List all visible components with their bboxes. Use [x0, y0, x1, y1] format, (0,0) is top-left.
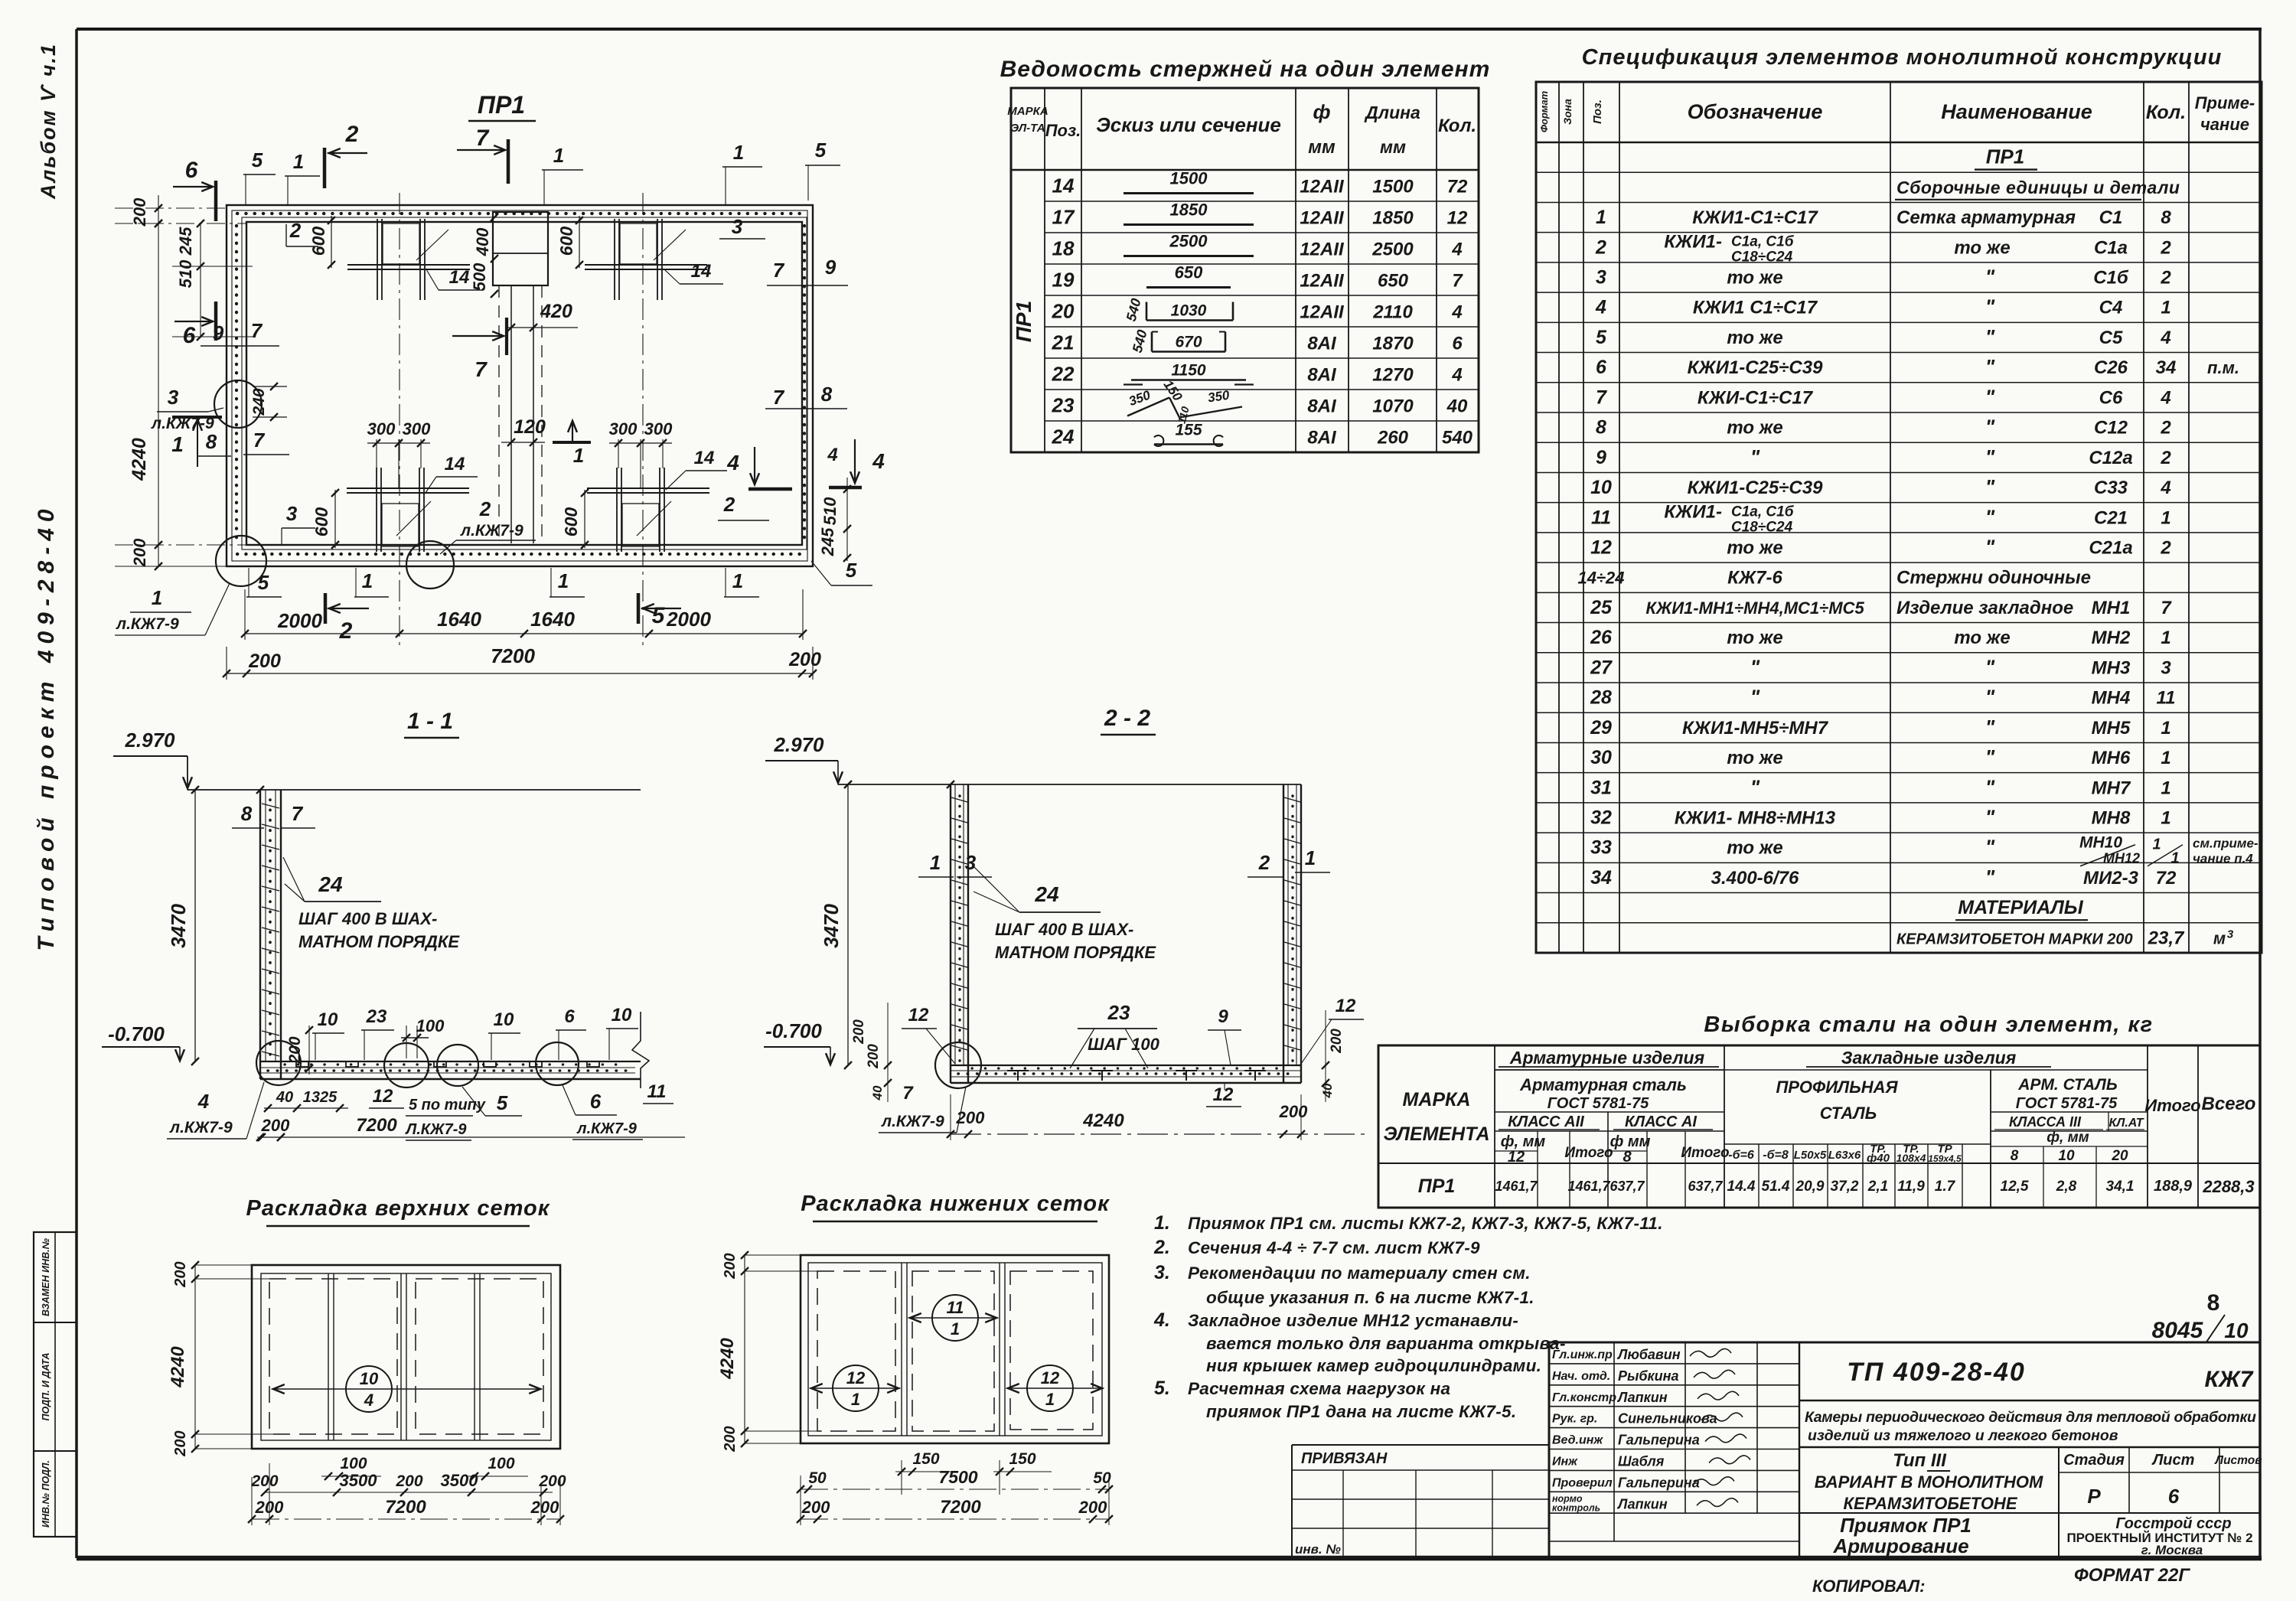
section mark 7 (top, into plan) [457, 149, 504, 151]
spec row 4 [1536, 232, 2262, 233]
svg-text:Поз.: Поз. [1045, 121, 1081, 140]
svg-text:29: 29 [1590, 717, 1612, 739]
svg-text:Гальперина: Гальперина [1618, 1433, 1700, 1448]
svg-text:8АI: 8АI [1307, 334, 1337, 354]
svg-text:общие указания п. 6 на листе: общие указания п. 6 на листе КЖ7-1. [1206, 1288, 1534, 1307]
svg-text:Стадия: Стадия [2063, 1452, 2125, 1469]
svg-text:2: 2 [345, 122, 359, 147]
svg-text:300: 300 [367, 419, 396, 439]
svg-text:2.970: 2.970 [773, 733, 824, 756]
svg-text:1: 1 [1305, 846, 1316, 869]
svg-text:20: 20 [1052, 300, 1075, 323]
svg-text:": " [1985, 686, 1995, 709]
svg-text:Инж: Инж [1552, 1456, 1578, 1469]
svg-text:2000: 2000 [277, 609, 322, 632]
svg-text:С1а, С1б: С1а, С1б [1731, 233, 1795, 249]
mesh circle 10/4 [346, 1366, 392, 1412]
svg-text:10: 10 [494, 1009, 514, 1030]
svg-text:650: 650 [1378, 271, 1409, 292]
spec row 13 [1536, 502, 2262, 504]
svg-text:1: 1 [851, 1390, 860, 1409]
svg-text:14: 14 [445, 454, 465, 474]
inventory stamp boxes [34, 1232, 77, 1537]
svg-text:ф, мм: ф, мм [1501, 1133, 1546, 1150]
svg-text:7: 7 [2161, 598, 2172, 618]
svg-text:7: 7 [475, 357, 488, 381]
svg-text:л.КЖ7-9: л.КЖ7-9 [460, 522, 523, 540]
svg-text:200: 200 [172, 1430, 189, 1456]
right wall [1283, 784, 1284, 1083]
svg-text:Раскладка нижених сеток: Раскладка нижених сеток [801, 1192, 1110, 1216]
spec row 5 [1536, 262, 2262, 263]
svg-text:7200: 7200 [356, 1115, 397, 1136]
svg-text:200: 200 [722, 1253, 739, 1279]
svg-text:2: 2 [2160, 448, 2171, 468]
signature row Проверил [1549, 1491, 1799, 1492]
svg-text:1: 1 [2161, 778, 2170, 798]
svg-text:7200: 7200 [940, 1497, 981, 1518]
svg-text:8: 8 [2161, 207, 2171, 228]
svg-text:24: 24 [1034, 882, 1059, 906]
svg-text:": " [1985, 655, 1995, 678]
svg-text:Л.КЖ7-9: Л.КЖ7-9 [404, 1121, 467, 1138]
svg-text:1: 1 [171, 432, 184, 456]
title row TP 409-28-40 [1799, 1400, 2260, 1401]
spec row 24 [1536, 832, 2262, 833]
svg-text:3: 3 [1596, 267, 1606, 289]
svg-text:то же: то же [1954, 628, 2010, 648]
spec row 12 [1536, 471, 2262, 473]
svg-text:2: 2 [289, 219, 302, 242]
svg-text:": " [1985, 716, 1995, 739]
svg-text:Итого: Итого [1564, 1145, 1613, 1161]
svg-text:КЖИ-С1÷С17: КЖИ-С1÷С17 [1698, 387, 1814, 408]
mesh circle 12/1 left [833, 1365, 879, 1411]
svg-text:Арматурная сталь: Арматурная сталь [1519, 1075, 1687, 1094]
svg-text:-б=8: -б=8 [1763, 1149, 1789, 1162]
svg-text:12АII: 12АII [1300, 177, 1345, 197]
svg-text:12: 12 [908, 1005, 929, 1025]
svg-text:то же: то же [1954, 237, 2010, 258]
svg-text:С1а, С1б: С1а, С1б [1731, 504, 1795, 520]
svg-text:4: 4 [364, 1391, 373, 1410]
svg-text:МН8: МН8 [2092, 808, 2131, 829]
svg-text:": " [1985, 866, 1995, 889]
svg-text:1: 1 [2161, 628, 2170, 648]
svg-text:МН3: МН3 [2092, 657, 2131, 678]
svg-text:2288,3: 2288,3 [2202, 1177, 2254, 1196]
svg-text:1.7: 1.7 [1935, 1179, 1956, 1195]
spec row 11 [1536, 442, 2262, 443]
svg-text:С26: С26 [2094, 357, 2128, 378]
svg-text:Эскиз или сечение: Эскиз или сечение [1096, 113, 1281, 136]
spec row 3 [1536, 201, 2262, 203]
svg-text:Ведомость стержней на один: Ведомость стержней на один элемент [1000, 57, 1491, 82]
svg-text:2: 2 [2160, 418, 2171, 439]
svg-text:г. Москва: г. Москва [2141, 1543, 2203, 1557]
svg-text:2: 2 [2160, 268, 2171, 289]
svg-text:": " [1985, 745, 1995, 768]
svg-text:ШАГ 400 В ШАХ-: ШАГ 400 В ШАХ- [995, 920, 1133, 939]
svg-text:10: 10 [2058, 1148, 2075, 1164]
svg-text:12,5: 12,5 [2001, 1179, 2029, 1195]
svg-text:12: 12 [1041, 1368, 1060, 1387]
svg-text:200: 200 [172, 1261, 189, 1287]
detail circles on floor [256, 1041, 301, 1085]
svg-text:200: 200 [261, 1116, 290, 1135]
svg-text:8: 8 [2207, 1290, 2220, 1316]
bottom dimension row 2 [227, 673, 813, 674]
svg-text:9: 9 [213, 321, 224, 344]
svg-text:-б=6: -б=6 [1728, 1149, 1754, 1162]
svg-text:19: 19 [1052, 269, 1075, 292]
signature row Гл.констр [1549, 1406, 1799, 1407]
svg-text:1461,7: 1461,7 [1567, 1179, 1610, 1194]
svg-text:1: 1 [573, 444, 584, 467]
svg-text:1850: 1850 [1170, 201, 1208, 220]
spec row 6 [1536, 292, 2262, 293]
left wall [950, 784, 951, 1083]
svg-text:С12а: С12а [2089, 448, 2132, 468]
svg-text:100: 100 [488, 1455, 514, 1472]
svg-text:1: 1 [362, 569, 373, 592]
svg-text:С12: С12 [2094, 418, 2128, 439]
svg-text:Арматурные изделия: Арматурные изделия [1509, 1048, 1705, 1068]
svg-text:Формат: Формат [1538, 90, 1550, 132]
svg-text:3470: 3470 [167, 904, 190, 948]
svg-text:200: 200 [1329, 1029, 1345, 1054]
svg-text:7: 7 [902, 1083, 914, 1104]
dim 3470 [847, 784, 849, 1065]
svg-text:7: 7 [292, 802, 304, 825]
svg-text:С4: С4 [2099, 298, 2123, 318]
svg-text:приямок ПР1 дана на листе КЖ: приямок ПР1 дана на листе КЖ7-5. [1206, 1402, 1516, 1421]
svg-text:Альбом Ѵ ч.1: Альбом Ѵ ч.1 [37, 43, 60, 200]
svg-text:-0.700: -0.700 [108, 1022, 165, 1045]
svg-text:Итого: Итого [2144, 1096, 2200, 1115]
svg-text:300: 300 [644, 419, 673, 439]
svg-text:": " [1750, 686, 1760, 709]
svg-text:2: 2 [1595, 236, 1606, 258]
svg-text:Рекомендации по материалу сте: Рекомендации по материалу стен см. [1188, 1264, 1531, 1283]
svg-text:ШАГ 400 В ШАХ-: ШАГ 400 В ШАХ- [298, 909, 437, 928]
section mark 7 mid [452, 335, 501, 337]
svg-text:": " [1985, 806, 1995, 829]
rebar cluster top-left [377, 219, 378, 300]
svg-text:КЕРАМЗИТОБЕТОН МАРКИ 200: КЕРАМЗИТОБЕТОН МАРКИ 200 [1896, 931, 2133, 947]
svg-text:7: 7 [1596, 386, 1607, 408]
signature row Нач. отд. [1549, 1384, 1799, 1386]
svg-text:10: 10 [318, 1009, 338, 1030]
svg-text:МАРКА: МАРКА [1403, 1089, 1471, 1110]
svg-text:ф мм: ф мм [1610, 1133, 1651, 1150]
svg-text:8: 8 [1623, 1149, 1632, 1166]
svg-text:1461,7: 1461,7 [1495, 1179, 1538, 1194]
svg-text:8АI: 8АI [1307, 428, 1337, 448]
svg-text:2 - 2: 2 - 2 [1104, 706, 1150, 731]
svg-text:": " [1750, 775, 1760, 798]
svg-text:1: 1 [2161, 507, 2170, 528]
svg-text:контроль: контроль [1552, 1502, 1600, 1513]
svg-text:ПРИВЯЗАН: ПРИВЯЗАН [1301, 1450, 1388, 1467]
svg-text:245: 245 [818, 527, 837, 556]
svg-text:ГОСТ 5781-75: ГОСТ 5781-75 [1548, 1095, 1649, 1112]
big arrow mark 1-8 left [172, 416, 222, 419]
svg-text:8: 8 [2011, 1148, 2019, 1164]
svg-text:600: 600 [561, 507, 581, 537]
svg-text:": " [1985, 325, 1995, 348]
svg-text:34: 34 [1590, 867, 1612, 889]
svg-text:12: 12 [1447, 208, 1468, 229]
svg-text:Гальперина: Гальперина [1618, 1475, 1700, 1490]
svg-text:240: 240 [250, 388, 268, 416]
svg-text:32: 32 [1590, 807, 1612, 829]
svg-text:500: 500 [470, 262, 489, 291]
svg-text:вается только для варианта отк: вается только для варианта открыва- [1206, 1334, 1566, 1353]
svg-text:": " [1750, 655, 1760, 678]
svg-text:350: 350 [1207, 388, 1231, 406]
svg-text:24: 24 [1052, 426, 1075, 448]
svg-text:1: 1 [553, 144, 564, 167]
svg-text:С33: С33 [2094, 478, 2128, 498]
svg-text:12АII: 12АII [1300, 271, 1345, 292]
svg-text:2000: 2000 [666, 608, 711, 631]
svg-text:Нач. отд.: Нач. отд. [1552, 1370, 1610, 1383]
svg-text:ф40: ф40 [1867, 1152, 1890, 1165]
svg-text:4.: 4. [1153, 1309, 1170, 1331]
svg-text:10: 10 [612, 1005, 632, 1025]
rebar cluster top-right [614, 219, 615, 300]
svg-text:ния крышек камер гидроцилиндра: ния крышек камер гидроцилиндрами. [1206, 1356, 1541, 1375]
svg-text:мм: мм [1380, 137, 1406, 157]
svg-text:л.КЖ7-9: л.КЖ7-9 [169, 1119, 233, 1136]
svg-text:2: 2 [2160, 237, 2171, 258]
svg-text:10: 10 [360, 1369, 379, 1388]
svg-text:7200: 7200 [385, 1497, 426, 1518]
svg-text:3: 3 [965, 851, 977, 874]
svg-text:2,8: 2,8 [2056, 1179, 2077, 1195]
svg-text:31: 31 [1590, 777, 1612, 798]
svg-text:ГОСТ 5781-75: ГОСТ 5781-75 [2016, 1095, 2118, 1112]
svg-text:3: 3 [168, 386, 179, 409]
svg-text:L50x5: L50x5 [1794, 1149, 1827, 1162]
svg-text:1: 1 [2161, 748, 2170, 768]
svg-text:": " [1750, 445, 1760, 468]
svg-text:12: 12 [846, 1368, 866, 1387]
svg-text:4: 4 [827, 445, 837, 465]
svg-text:5: 5 [652, 603, 666, 628]
svg-text:200: 200 [851, 1019, 867, 1045]
svg-text:МН7: МН7 [2092, 778, 2131, 798]
svg-text:2500: 2500 [1169, 232, 1208, 251]
svg-text:КЛ.АТ: КЛ.АТ [2109, 1117, 2144, 1130]
wall rebar dots bottom [237, 553, 804, 556]
bottom mesh dashed meshes [817, 1271, 895, 1431]
svg-text:С6: С6 [2099, 387, 2123, 408]
svg-text:С1б: С1б [2093, 268, 2129, 289]
plan inner room lines [246, 222, 802, 545]
svg-text:Выборка стали на один элем: Выборка стали на один элемент, кг [1704, 1012, 2153, 1037]
svg-text:п.м.: п.м. [2207, 358, 2239, 377]
svg-text:14÷24: 14÷24 [1577, 569, 1624, 588]
svg-text:14: 14 [1052, 174, 1075, 197]
svg-text:": " [1985, 475, 1995, 498]
detail circle bottom-centre [406, 541, 454, 589]
svg-text:1: 1 [732, 569, 743, 592]
svg-text:МАТНОМ ПОРЯДКЕ: МАТНОМ ПОРЯДКЕ [995, 943, 1156, 962]
svg-text:650: 650 [1175, 263, 1203, 282]
svg-text:Всего: Всего [2202, 1094, 2256, 1114]
svg-text:С1а: С1а [2094, 237, 2128, 258]
spec row 7 [1536, 321, 2262, 323]
svg-text:100: 100 [340, 1455, 367, 1472]
svg-text:200: 200 [395, 1472, 422, 1490]
svg-text:40: 40 [870, 1085, 885, 1100]
privyazan box [1292, 1444, 1549, 1446]
svg-text:2,1: 2,1 [1867, 1179, 1888, 1195]
svg-text:12: 12 [1590, 537, 1612, 559]
svg-text:159x4,5: 159x4,5 [1928, 1153, 1962, 1164]
svg-text:14: 14 [694, 448, 715, 468]
svg-text:200: 200 [248, 651, 281, 672]
svg-text:С5: С5 [2099, 328, 2123, 348]
spec row 26 [1536, 892, 2262, 894]
svg-text:8АI: 8АI [1307, 396, 1337, 417]
svg-text:Проверил: Проверил [1552, 1476, 1613, 1489]
svg-text:540: 540 [1130, 328, 1150, 354]
central slot block [493, 212, 548, 285]
spec row 9 [1536, 382, 2262, 383]
svg-text:КЖИ1-МН1÷МН4,МС1÷МС5: КЖИ1-МН1÷МН4,МС1÷МС5 [1645, 598, 1864, 618]
svg-text:150: 150 [1009, 1450, 1035, 1468]
svg-text:260: 260 [1377, 428, 1409, 448]
svg-text:72: 72 [2156, 868, 2177, 889]
svg-text:27: 27 [1590, 657, 1613, 678]
svg-text:245: 245 [176, 227, 195, 256]
svg-text:540: 540 [1124, 297, 1144, 323]
svg-text:5: 5 [1596, 327, 1607, 348]
svg-text:20: 20 [2111, 1148, 2128, 1164]
svg-text:40: 40 [276, 1089, 293, 1106]
svg-text:л.КЖ7-9: л.КЖ7-9 [576, 1120, 638, 1137]
svg-text:то же: то же [1727, 538, 1782, 559]
svg-text:4: 4 [1451, 240, 1462, 260]
svg-text:670: 670 [1175, 334, 1202, 351]
svg-text:637,7: 637,7 [1609, 1179, 1645, 1194]
wall rebar dots left [235, 226, 238, 542]
svg-text:7200: 7200 [491, 644, 535, 667]
rebar cluster bottom-right [616, 468, 618, 552]
bottom dimension row 1 [245, 633, 803, 634]
svg-text:2: 2 [479, 497, 491, 520]
steel table grid [1378, 1045, 2260, 1208]
svg-text:1: 1 [733, 141, 744, 164]
spec row 16 [1536, 592, 2262, 593]
svg-text:5: 5 [252, 148, 263, 171]
svg-text:4: 4 [2160, 387, 2170, 408]
svg-text:2110: 2110 [1372, 302, 1413, 323]
svg-text:11: 11 [2157, 688, 2176, 709]
detail circle bottom-left corner [216, 536, 266, 586]
svg-text:5.: 5. [1154, 1378, 1170, 1399]
svg-text:1: 1 [2161, 718, 2170, 739]
svg-text:10: 10 [2224, 1319, 2249, 1342]
svg-text:2.970: 2.970 [124, 729, 175, 752]
detail circle wall-floor [935, 1042, 981, 1088]
svg-text:37,2: 37,2 [1831, 1179, 1859, 1195]
svg-text:50: 50 [808, 1469, 827, 1487]
svg-text:Кол.: Кол. [1438, 116, 1476, 136]
svg-text:1: 1 [1596, 207, 1606, 228]
svg-text:ТП 409-28-40: ТП 409-28-40 [1847, 1358, 2026, 1387]
svg-text:6: 6 [2168, 1485, 2180, 1508]
svg-text:1070: 1070 [1372, 396, 1414, 417]
svg-text:8: 8 [241, 802, 253, 825]
svg-text:Зона: Зона [1561, 99, 1574, 125]
svg-text:Кол.: Кол. [2146, 102, 2186, 123]
svg-text:200: 200 [866, 1044, 882, 1069]
svg-text:Сетка арматурная: Сетка арматурная [1896, 207, 2076, 228]
svg-text:1.: 1. [1154, 1212, 1170, 1234]
svg-text:72: 72 [1447, 177, 1468, 197]
svg-text:28: 28 [1590, 687, 1612, 709]
spec row 19 [1536, 682, 2262, 683]
svg-text:ф, мм: ф, мм [2047, 1130, 2089, 1146]
plan outer wall lines [227, 205, 813, 566]
svg-text:4240: 4240 [1082, 1110, 1124, 1131]
svg-text:Лапкин: Лапкин [1616, 1390, 1668, 1405]
bar schedule grid [1011, 88, 1479, 452]
svg-text:ВЗАМЕН ИНВ.№: ВЗАМЕН ИНВ.№ [41, 1237, 51, 1316]
svg-text:25: 25 [1590, 597, 1613, 618]
svg-text:12АII: 12АII [1300, 302, 1345, 323]
svg-text:1325: 1325 [303, 1089, 338, 1106]
svg-text:40: 40 [1446, 396, 1468, 417]
svg-text:Закладные изделия: Закладные изделия [1841, 1048, 2017, 1068]
dim 3470 [194, 790, 196, 1061]
svg-text:18: 18 [1052, 237, 1075, 260]
svg-text:МН10: МН10 [2079, 834, 2122, 852]
svg-text:8АI: 8АI [1307, 365, 1337, 386]
svg-text:9: 9 [1596, 447, 1606, 468]
svg-text:23: 23 [1107, 1001, 1130, 1024]
spec row 17 [1536, 622, 2262, 624]
svg-text:12: 12 [1213, 1084, 1234, 1105]
small grid below privyazan [1292, 1498, 1549, 1500]
svg-text:50: 50 [1093, 1469, 1111, 1487]
sheet name cell [2058, 1447, 2060, 1558]
svg-text:3: 3 [2227, 928, 2234, 941]
svg-text:Р: Р [2087, 1485, 2101, 1508]
svg-text:4: 4 [2160, 328, 2170, 348]
signature row нормо|контроль [1549, 1512, 1799, 1514]
svg-text:4240: 4240 [717, 1338, 738, 1380]
svg-text:МАТЕРИАЛЫ: МАТЕРИАЛЫ [1958, 897, 2083, 918]
svg-text:200: 200 [1078, 1498, 1107, 1517]
svg-text:20,9: 20,9 [1795, 1179, 1825, 1195]
svg-text:2: 2 [723, 493, 735, 516]
svg-text:6: 6 [183, 323, 196, 348]
svg-text:Типовой проект 409-28-40: Типовой проект 409-28-40 [34, 503, 59, 950]
svg-text:МАТНОМ ПОРЯДКЕ: МАТНОМ ПОРЯДКЕ [298, 932, 460, 951]
svg-text:8045: 8045 [2152, 1318, 2204, 1343]
svg-text:ВАРИАНТ В МОНОЛИТНОМ: ВАРИАНТ В МОНОЛИТНОМ [1815, 1472, 2043, 1492]
svg-text:ПР1: ПР1 [1418, 1175, 1456, 1197]
svg-text:Рук. гр.: Рук. гр. [1552, 1413, 1597, 1426]
svg-text:3500: 3500 [340, 1471, 378, 1490]
svg-text:МН4: МН4 [2092, 688, 2131, 709]
svg-text:7: 7 [773, 259, 785, 282]
